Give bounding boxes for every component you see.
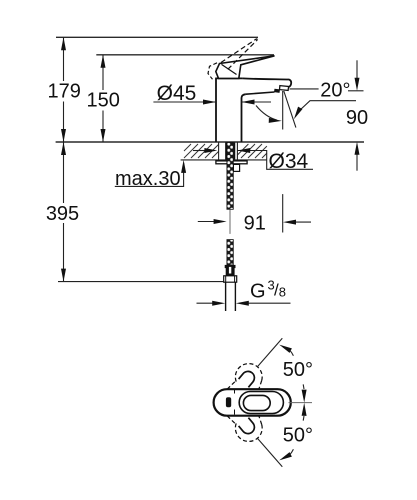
aerator outlet (black wedge) bbox=[274, 89, 280, 93]
hose nut bbox=[224, 276, 237, 282]
dim G3/8 left arrow bbox=[197, 302, 215, 304]
svg-text:179: 179 bbox=[48, 81, 81, 103]
svg-text:8: 8 bbox=[279, 285, 286, 300]
dashed lever up: left side bbox=[227, 382, 235, 390]
deck bottom line bbox=[181, 159, 267, 161]
lever top-view inner capsule bbox=[243, 395, 270, 410]
flange (horseshoe washer) under deck bbox=[216, 161, 247, 164]
shank tube walls in deck hole bbox=[225, 143, 227, 160]
black mark on capsule left bbox=[226, 397, 231, 407]
dashed lever rotated up 50deg: outer cap arc bbox=[235, 364, 262, 382]
spout top edge bbox=[243, 78, 292, 87]
dashed lever up: right side bbox=[259, 381, 262, 390]
arrow 150 down bbox=[101, 129, 106, 142]
dim 91 right arrow bbox=[294, 221, 311, 223]
wire: deck/mounting surface line bbox=[56, 141, 364, 143]
50deg top arc arrow at line bbox=[279, 345, 292, 353]
deck hatch left part bbox=[184, 144, 219, 158]
deck hatch right part bbox=[237, 144, 267, 158]
faucet top-view body (capsule) bbox=[214, 389, 291, 416]
20 deg left arc with arrow bbox=[256, 106, 277, 121]
svg-text:20°: 20° bbox=[320, 79, 350, 101]
svg-text:Ø45: Ø45 bbox=[157, 82, 197, 105]
lever handle raised (dashed) line 2 bbox=[228, 40, 257, 69]
svg-text:Ø34: Ø34 bbox=[269, 150, 309, 173]
20 deg vertical reference line bbox=[282, 91, 284, 130]
faucet body left edge bbox=[215, 78, 217, 142]
wire: 150 reference line bbox=[96, 54, 274, 56]
vertical dash-dot centerline ticks bbox=[234, 389, 236, 394]
arrow 179 down bbox=[61, 129, 66, 142]
dim 91 left arrow bbox=[198, 221, 216, 223]
dim diameter34 right arrow and bent leader bbox=[237, 151, 313, 170]
lever top-view middle capsule bbox=[239, 392, 283, 414]
20 deg outlet level line bbox=[290, 88, 319, 90]
arrow 150 up bbox=[101, 55, 106, 68]
svg-text:90: 90 bbox=[346, 107, 368, 129]
svg-text:91: 91 bbox=[244, 212, 266, 234]
dim 91 right extension line bbox=[282, 194, 284, 232]
dashed lever rotated down 50deg: outer cap arc bbox=[235, 423, 262, 441]
dashed lever down: left side bbox=[227, 416, 235, 424]
lever raised boss (dashed) bbox=[208, 63, 217, 80]
dim 395 vertical line bbox=[63, 142, 65, 282]
deck hole right edge bbox=[236, 142, 238, 160]
G3/8 pipe right edge bbox=[234, 282, 236, 311]
dim 90 top tick bbox=[348, 90, 364, 92]
dim 90 top arrow (down) bbox=[356, 60, 358, 80]
lever inner edge line bbox=[222, 64, 237, 74]
deck hole left edge bbox=[218, 142, 220, 160]
wire: 395 bottom reference line bbox=[58, 281, 224, 283]
dashed lever down: right side bbox=[259, 416, 262, 425]
50deg top arc arrow at centerline bbox=[302, 384, 305, 389]
svg-text:395: 395 bbox=[46, 203, 79, 225]
dim G3/8 right arrow bbox=[247, 302, 291, 304]
50deg top slanted line bbox=[257, 338, 282, 366]
50deg bottom slanted line bbox=[257, 438, 282, 466]
svg-text:50°: 50° bbox=[283, 425, 313, 447]
faucet body top edge bbox=[215, 77, 242, 79]
lever handle raised (dashed) line 1 bbox=[221, 39, 257, 63]
faucet body right edge bbox=[242, 94, 246, 142]
arrow d45 left-pointing with tail bbox=[242, 101, 272, 103]
arrow d45 right-pointing bbox=[203, 100, 216, 105]
braided supply hose upper segment bbox=[227, 143, 233, 210]
lever raised tip dash bbox=[256, 39, 259, 40]
svg-text:G: G bbox=[250, 281, 266, 303]
svg-text:150: 150 bbox=[87, 90, 120, 112]
50deg bottom arc arrow at centerline bbox=[302, 416, 305, 421]
arrow 179 up bbox=[61, 37, 66, 50]
dim 90 bottom arrow (up) bbox=[356, 153, 358, 171]
aerator housing (outlined) bbox=[280, 86, 289, 91]
wire: 179 top reference line bbox=[56, 36, 258, 38]
lever handle (down position) bbox=[216, 56, 275, 79]
G3/8 pipe left edge bbox=[225, 282, 227, 311]
inner lever end U (up position) bbox=[239, 369, 257, 387]
hose ferrule collar bbox=[225, 265, 236, 268]
hose ferrule bbox=[226, 267, 235, 276]
dim diameter34 left arrow bbox=[193, 150, 206, 152]
spout underside curve bbox=[246, 92, 275, 94]
horizontal centerline right bbox=[289, 402, 313, 404]
arrow 395 down bbox=[61, 269, 66, 282]
mounting stud under flange bbox=[233, 164, 239, 171]
svg-text:50°: 50° bbox=[283, 359, 313, 381]
20 deg right leader with arrow bbox=[298, 101, 357, 113]
50deg bottom arc arrow at line bbox=[279, 452, 292, 460]
20 deg slanted line bbox=[284, 91, 296, 128]
hose centerline (break) bbox=[229, 209, 231, 234]
braided supply hose lower segment bbox=[227, 240, 233, 265]
arrow 395 up bbox=[61, 142, 66, 155]
dim diameter45 leader line bbox=[153, 101, 216, 103]
inner lever end U (down position) bbox=[239, 418, 257, 436]
dim 179 vertical line bbox=[63, 37, 65, 142]
dim 150 vertical line bbox=[102, 55, 104, 142]
